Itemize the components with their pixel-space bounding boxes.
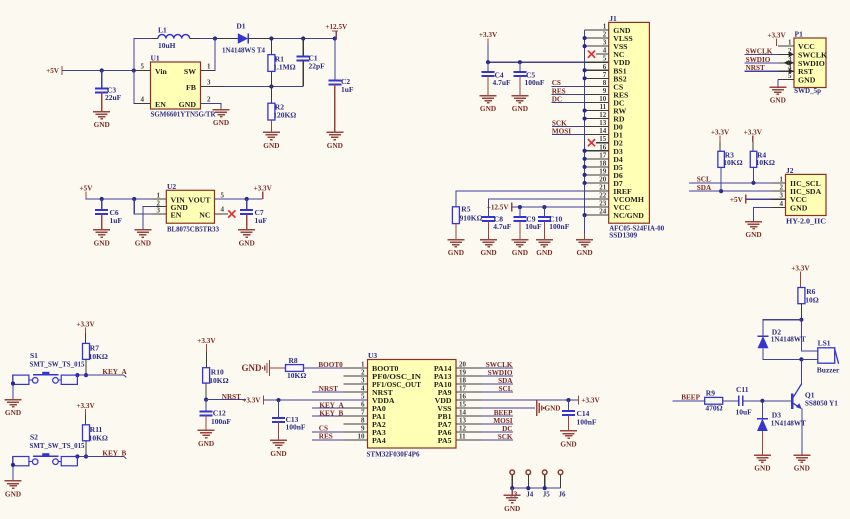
svg-text:+3.3V: +3.3V bbox=[791, 265, 810, 273]
svg-text:+3.3V: +3.3V bbox=[711, 129, 730, 137]
pin 14 J1 D1 bbox=[585, 134, 609, 136]
wire +5V to U1 Vin bbox=[62, 70, 134, 72]
svg-text:100nF: 100nF bbox=[286, 423, 306, 432]
svg-text:10uF: 10uF bbox=[736, 407, 753, 416]
connector J6 bbox=[558, 470, 563, 475]
svg-text:10Ω: 10Ω bbox=[805, 295, 819, 304]
svg-text:VOUT: VOUT bbox=[188, 195, 211, 204]
wire DC U3 bbox=[481, 431, 513, 433]
wire RES U3 bbox=[312, 439, 343, 441]
pin 16 U3 VDD bbox=[456, 399, 481, 401]
svg-text:+3.3V: +3.3V bbox=[197, 337, 216, 345]
svg-text:100nF: 100nF bbox=[211, 417, 231, 426]
ground GND S1 bbox=[5, 399, 22, 401]
pin 18 J1 D5 bbox=[585, 166, 609, 168]
svg-text:14: 14 bbox=[459, 409, 467, 417]
wire CS U3 bbox=[312, 431, 343, 433]
svg-text:14: 14 bbox=[599, 127, 607, 135]
node B collector bbox=[799, 357, 803, 361]
resistor R8 bbox=[286, 365, 304, 372]
pin stub U1 FB bbox=[201, 86, 225, 88]
svg-text:SWDIO: SWDIO bbox=[488, 369, 513, 377]
node C14 bbox=[566, 398, 570, 402]
pin 20 J1 D7 bbox=[585, 182, 609, 184]
capacitor C3 bbox=[101, 71, 103, 89]
wire MOSI U3 bbox=[481, 423, 513, 425]
svg-text:J5: J5 bbox=[543, 491, 551, 499]
svg-text:+3.3V: +3.3V bbox=[479, 31, 498, 39]
capacitor C12 bbox=[205, 400, 207, 412]
wire KEY net S1 bbox=[77, 374, 124, 376]
wire EN tie bbox=[134, 199, 166, 214]
wire node A to buzzer bbox=[801, 320, 817, 351]
svg-text:+12.5V: +12.5V bbox=[325, 23, 348, 31]
svg-text:GND: GND bbox=[5, 408, 21, 417]
svg-text:GND: GND bbox=[263, 141, 279, 150]
svg-text:FB: FB bbox=[186, 83, 196, 92]
svg-text:SCK: SCK bbox=[498, 433, 513, 441]
svg-text:2: 2 bbox=[361, 369, 365, 377]
connector J4 bbox=[526, 470, 531, 475]
svg-text:SW: SW bbox=[184, 67, 196, 76]
svg-text:SCL: SCL bbox=[499, 385, 513, 393]
svg-text:GND: GND bbox=[504, 504, 520, 513]
buzzer LS1 bbox=[818, 348, 835, 363]
svg-text:+3.3V: +3.3V bbox=[581, 397, 600, 405]
svg-text:12: 12 bbox=[599, 111, 607, 119]
svg-text:SMT_SW_TS_015: SMT_SW_TS_015 bbox=[30, 441, 85, 450]
svg-text:GND: GND bbox=[512, 248, 528, 257]
connector J3 bbox=[510, 470, 515, 475]
pin 11 U3 PA5 bbox=[456, 439, 481, 441]
wire VDD rail bbox=[488, 61, 585, 63]
wire VOUT to +3.3V bbox=[215, 198, 263, 200]
svg-text:GND: GND bbox=[448, 248, 464, 257]
pin 3 U3 PF1/OSC_OUT bbox=[343, 383, 367, 385]
no-connect X J1 pin15 bbox=[588, 139, 595, 146]
wire jumper bus bbox=[512, 487, 560, 489]
svg-text:J2: J2 bbox=[786, 166, 794, 175]
svg-text:GND: GND bbox=[94, 120, 110, 129]
pin 2 P1 SWCLK bbox=[778, 53, 794, 55]
svg-text:+3.3V: +3.3V bbox=[254, 184, 273, 192]
resistor R6 bbox=[798, 288, 805, 304]
pin stub U2 GND bbox=[156, 206, 166, 208]
pin 11 J1 RW bbox=[585, 110, 609, 112]
ground GND C14 bbox=[568, 415, 570, 431]
pin 14 U3 PB1 bbox=[456, 415, 481, 417]
capacitor C11 bbox=[738, 396, 740, 406]
svg-text:1: 1 bbox=[157, 192, 161, 200]
svg-text:4.7uF: 4.7uF bbox=[493, 78, 512, 87]
wire SCK bbox=[552, 126, 585, 128]
svg-text:GND: GND bbox=[327, 141, 343, 150]
wire MOSI bbox=[552, 134, 585, 136]
svg-text:C11: C11 bbox=[736, 385, 749, 394]
svg-text:10KΩ: 10KΩ bbox=[756, 158, 775, 167]
node J1 bus pin 24 bbox=[583, 213, 587, 217]
svg-text:100nF: 100nF bbox=[577, 418, 597, 427]
resistor R10 bbox=[203, 368, 210, 383]
node J1 bus pin 16 bbox=[583, 149, 587, 153]
svg-text:4: 4 bbox=[141, 95, 145, 103]
node J1 bus pin 19 bbox=[583, 173, 587, 177]
pin 16 J1 D3 bbox=[585, 150, 609, 152]
svg-text:3: 3 bbox=[361, 377, 365, 385]
pin 4 U3 NRST bbox=[343, 391, 367, 393]
node switch right S1 bbox=[75, 373, 79, 377]
svg-text:1: 1 bbox=[788, 39, 792, 47]
svg-text:5: 5 bbox=[221, 192, 225, 200]
svg-text:9: 9 bbox=[361, 425, 365, 433]
ground GND U1 bbox=[213, 109, 230, 111]
wire P1 GND bbox=[777, 80, 779, 87]
node J1 bus pin 17 bbox=[583, 157, 587, 161]
wire VCC rail bbox=[512, 206, 585, 208]
wire SDA U3 bbox=[481, 383, 513, 385]
ground GND C2 bbox=[334, 85, 336, 133]
diode D3 bbox=[761, 401, 763, 419]
node J1 bus pin 20 bbox=[583, 181, 587, 185]
node C10 bbox=[542, 205, 546, 209]
svg-text:+5V: +5V bbox=[46, 67, 60, 75]
svg-text:2: 2 bbox=[603, 31, 607, 39]
pin 12 U3 PA6 bbox=[456, 431, 481, 433]
pin 18 U3 PA10 bbox=[456, 383, 481, 385]
pin 4 J1 NC bbox=[596, 53, 609, 55]
svg-text:PA5: PA5 bbox=[438, 436, 452, 445]
svg-text:D1: D1 bbox=[236, 22, 245, 31]
ground GND C9 bbox=[519, 221, 521, 240]
pin NC stub U2 bbox=[215, 213, 229, 215]
resistor R4 bbox=[750, 151, 757, 167]
wire BEEP U3 bbox=[481, 415, 513, 417]
pin 5 P1 GND bbox=[778, 79, 794, 81]
pin stub U1 SW bbox=[201, 70, 216, 72]
power +12.5V J1 bbox=[511, 203, 513, 212]
svg-text:KEY_A: KEY_A bbox=[102, 368, 127, 376]
svg-text:21: 21 bbox=[599, 184, 607, 192]
pin 24 J1 NC/GND bbox=[585, 214, 609, 216]
svg-text:GND: GND bbox=[94, 239, 110, 248]
svg-text:+3.3V: +3.3V bbox=[744, 129, 763, 137]
ground GND jumpers bbox=[511, 488, 513, 495]
pin 22 J1 VCOMH bbox=[585, 198, 609, 200]
svg-text:13: 13 bbox=[599, 119, 607, 127]
svg-text:1.1MΩ: 1.1MΩ bbox=[273, 63, 295, 72]
svg-text:470Ω: 470Ω bbox=[705, 403, 722, 412]
svg-text:HY-2.0_IIC: HY-2.0_IIC bbox=[786, 217, 826, 226]
node SW junction bbox=[213, 36, 217, 40]
svg-text:SWCLK: SWCLK bbox=[486, 361, 513, 369]
wire SWDIO bbox=[745, 62, 778, 64]
node J1 bus pin 12 bbox=[583, 116, 587, 120]
capacitor C5 bbox=[519, 62, 521, 72]
resistor R11 bbox=[83, 425, 90, 441]
svg-text:10KΩ: 10KΩ bbox=[287, 371, 306, 380]
wire D2 to node B bbox=[763, 348, 801, 359]
svg-text:GND: GND bbox=[794, 464, 810, 473]
svg-text:23: 23 bbox=[599, 200, 607, 208]
capacitor C8 bbox=[482, 216, 495, 218]
svg-text:+3.3V: +3.3V bbox=[76, 402, 95, 410]
svg-text:U2: U2 bbox=[167, 182, 176, 191]
svg-text:L1: L1 bbox=[158, 25, 167, 34]
pin 10 J1 DC bbox=[585, 101, 609, 103]
wire SDA bbox=[689, 190, 772, 192]
svg-text:KEY_A: KEY_A bbox=[319, 401, 344, 409]
svg-text:GND: GND bbox=[545, 405, 561, 413]
wire R3 to SDA bbox=[720, 167, 722, 191]
svg-text:Buzzer: Buzzer bbox=[817, 366, 840, 375]
wire collector bbox=[800, 359, 802, 383]
pin stub U2 EN bbox=[152, 213, 166, 215]
svg-text:J6: J6 bbox=[559, 491, 567, 499]
wire FB net bbox=[201, 86, 304, 88]
pin 17 U3 PA9 bbox=[456, 391, 481, 393]
pin 7 U3 PA1 bbox=[343, 415, 367, 417]
svg-text:GND: GND bbox=[179, 100, 197, 109]
svg-text:GND: GND bbox=[798, 76, 816, 85]
svg-text:KEY_B: KEY_B bbox=[319, 410, 343, 418]
inductor L1 bbox=[158, 35, 190, 39]
wire SWCLK bbox=[745, 53, 778, 55]
node J1 bus pin 3 bbox=[583, 44, 587, 48]
pin 3 P1 SWDIO bbox=[778, 62, 794, 64]
node R4 bottom bbox=[751, 181, 755, 185]
regulator U1 bbox=[151, 62, 201, 109]
power +5V bbox=[61, 66, 63, 75]
svg-text:910KΩ: 910KΩ bbox=[460, 214, 483, 223]
node base junction bbox=[760, 399, 764, 403]
svg-text:4: 4 bbox=[603, 47, 607, 55]
svg-text:1N4148WT: 1N4148WT bbox=[771, 418, 806, 427]
ground GND VSS side bbox=[536, 400, 538, 416]
svg-text:GND: GND bbox=[242, 363, 263, 373]
svg-text:CS: CS bbox=[319, 424, 328, 432]
wire J1 ground bus bbox=[584, 30, 586, 215]
svg-text:+3.3V: +3.3V bbox=[242, 397, 261, 405]
wire CS bbox=[552, 85, 585, 87]
svg-text:GND: GND bbox=[790, 204, 808, 213]
svg-text:5: 5 bbox=[361, 393, 365, 401]
wire emitter to ground bbox=[801, 408, 803, 455]
pin 6 J1 BS1 bbox=[585, 69, 609, 71]
node C4 bbox=[486, 60, 490, 64]
diode D1 bbox=[238, 33, 248, 43]
pin arrow P1 pin2 bbox=[789, 52, 794, 57]
svg-text:SMT_SW_TS_015: SMT_SW_TS_015 bbox=[30, 360, 85, 369]
svg-text:MOSI: MOSI bbox=[493, 417, 512, 425]
svg-text:22uF: 22uF bbox=[105, 93, 122, 102]
svg-text:KEY_B: KEY_B bbox=[102, 450, 126, 458]
pin 20 U3 PA14 bbox=[456, 367, 481, 369]
connector J5 bbox=[542, 470, 547, 475]
ground GND C10 bbox=[543, 221, 545, 240]
wire D1 to +12.5V node bbox=[248, 38, 271, 40]
node J1 bus pin 11 bbox=[583, 108, 587, 112]
no-connect X J1 pin4 bbox=[588, 51, 595, 58]
ground GND C8 bbox=[488, 221, 490, 240]
connector P1 bbox=[794, 38, 826, 88]
svg-text:GND: GND bbox=[770, 96, 786, 105]
svg-text:GND: GND bbox=[213, 118, 229, 127]
svg-text:100nF: 100nF bbox=[525, 78, 545, 87]
pin 8 U3 PA2 bbox=[343, 423, 367, 425]
pin 3 J1 VSS bbox=[585, 45, 609, 47]
wire +5V to VCC bbox=[746, 198, 772, 200]
wire D3 to ground bbox=[761, 431, 763, 455]
resistor R1 bbox=[270, 39, 272, 55]
svg-text:10KΩ: 10KΩ bbox=[723, 158, 742, 167]
node R3 bottom bbox=[719, 189, 723, 193]
pin stub U1 EN bbox=[134, 102, 151, 104]
wire SCK U3 bbox=[481, 439, 513, 441]
svg-text:2: 2 bbox=[780, 184, 784, 192]
capacitor C9 bbox=[519, 207, 521, 217]
svg-text:U1: U1 bbox=[151, 54, 160, 63]
node C2 top bbox=[333, 36, 337, 40]
svg-text:+3.3V: +3.3V bbox=[767, 31, 786, 39]
svg-text:4: 4 bbox=[780, 200, 784, 208]
pin 5 U3 VDDA bbox=[343, 399, 367, 401]
pin 3 J2 VCC bbox=[772, 198, 786, 200]
wire node A to D2 bbox=[763, 320, 801, 336]
svg-text:GND: GND bbox=[754, 464, 770, 473]
pin 19 U3 PA13 bbox=[456, 375, 481, 377]
svg-text:SSD1309: SSD1309 bbox=[609, 230, 637, 239]
wire +5V to VIN bbox=[85, 198, 166, 200]
svg-text:24: 24 bbox=[599, 208, 607, 216]
svg-text:8: 8 bbox=[361, 417, 365, 425]
pin 8 J1 CS bbox=[585, 85, 609, 87]
diode D2 bbox=[758, 335, 769, 337]
svg-text:1: 1 bbox=[207, 63, 211, 71]
capacitor C13 bbox=[278, 400, 280, 418]
wire EN branch bbox=[134, 71, 151, 104]
MCU U3 STM32F030F4P6 bbox=[368, 360, 457, 449]
transistor Q1 SS8050 bbox=[791, 393, 793, 409]
node J1 bus pin 18 bbox=[583, 165, 587, 169]
pin 2 J2 IIC_SDA bbox=[772, 190, 786, 192]
pin 13 U3 PA7 bbox=[456, 423, 481, 425]
svg-text:SWD_5p: SWD_5p bbox=[794, 86, 821, 95]
svg-text:10KΩ: 10KΩ bbox=[89, 433, 108, 442]
svg-text:BOOT0: BOOT0 bbox=[318, 361, 343, 369]
node C7 bbox=[245, 197, 249, 201]
wire C11 to base bbox=[743, 400, 792, 402]
node C13 bbox=[276, 398, 280, 402]
svg-text:R5: R5 bbox=[461, 205, 470, 214]
svg-text:15: 15 bbox=[459, 401, 467, 409]
wire VDDA rail bbox=[264, 399, 368, 401]
wire J2 GND bbox=[754, 208, 772, 222]
resistor R3 bbox=[718, 151, 725, 167]
regulator U2 bbox=[166, 190, 214, 223]
wire node B to buzzer bbox=[801, 358, 817, 360]
wire switch to ground S2 bbox=[12, 457, 14, 481]
svg-text:+3.3V: +3.3V bbox=[76, 321, 95, 329]
svg-text:R9: R9 bbox=[706, 389, 715, 398]
svg-text:4.7uF: 4.7uF bbox=[493, 222, 512, 231]
svg-text:GND: GND bbox=[480, 104, 496, 113]
wire VDD to +3.3V bbox=[481, 399, 578, 401]
node J3 bus bbox=[510, 486, 514, 490]
node NRST junction bbox=[204, 398, 208, 402]
node J1 bus pin 2 bbox=[583, 36, 587, 40]
svg-text:DC: DC bbox=[502, 425, 512, 433]
svg-text:EN: EN bbox=[171, 210, 182, 219]
ground GND C13 bbox=[278, 422, 280, 440]
wire SCL U3 bbox=[481, 391, 513, 393]
node J5 bus bbox=[543, 486, 547, 490]
pin arrow P1 pin4 bbox=[789, 69, 794, 74]
svg-text:2: 2 bbox=[207, 95, 211, 103]
ground GND R2 bbox=[270, 120, 272, 132]
capacitor C7 bbox=[246, 199, 248, 210]
capacitor C14 bbox=[568, 400, 570, 411]
pin 1 J1 GND bbox=[585, 29, 609, 31]
ground GND J2 bbox=[745, 221, 762, 223]
wire GND to R8 bbox=[270, 367, 286, 369]
svg-text:+5V: +5V bbox=[730, 196, 744, 204]
resistor R9 bbox=[705, 397, 723, 404]
svg-text:15: 15 bbox=[599, 135, 607, 143]
svg-text:22: 22 bbox=[599, 192, 607, 200]
wire NRST R10 bbox=[206, 399, 246, 401]
node C3 junction bbox=[100, 68, 104, 72]
wire SWCLK U3 bbox=[481, 367, 513, 369]
svg-text:5: 5 bbox=[603, 55, 607, 63]
ground GND C3 bbox=[101, 93, 103, 112]
svg-text:18: 18 bbox=[459, 377, 467, 385]
pin 9 U3 PA3 bbox=[343, 431, 367, 433]
node C5 bbox=[518, 60, 522, 64]
svg-text:RES: RES bbox=[319, 432, 333, 440]
wire VSS to GND bbox=[481, 407, 535, 409]
ground GND D3 bbox=[754, 454, 771, 456]
capacitor C10 bbox=[543, 207, 545, 217]
wire IREF to R5 bbox=[456, 191, 585, 207]
svg-text:10uH: 10uH bbox=[158, 41, 176, 50]
pin 1 P1 VCC bbox=[778, 45, 794, 47]
wire NRST U3 bbox=[312, 391, 343, 393]
wire R4 to SCL bbox=[753, 167, 755, 182]
node switch right S2 bbox=[75, 454, 79, 458]
wire KEY_A U3 bbox=[312, 407, 343, 409]
pin stub U1 Vin bbox=[134, 70, 151, 72]
node Vin junction bbox=[132, 68, 136, 72]
wire NRST bbox=[745, 70, 778, 72]
power +3.3V U3 VDD bbox=[577, 396, 579, 405]
svg-text:20: 20 bbox=[459, 361, 467, 369]
svg-text:20: 20 bbox=[599, 175, 607, 183]
pin 2 J1 VLSS bbox=[585, 37, 609, 39]
wire BOOT0 bbox=[304, 367, 344, 369]
node C1 top bbox=[301, 36, 305, 40]
svg-text:+5V: +5V bbox=[80, 184, 94, 192]
svg-text:GND: GND bbox=[512, 104, 528, 113]
pin 13 J1 D0 bbox=[585, 126, 609, 128]
svg-text:16: 16 bbox=[599, 143, 607, 151]
svg-text:NC: NC bbox=[199, 210, 211, 219]
svg-text:J1: J1 bbox=[609, 14, 617, 23]
svg-text:17: 17 bbox=[599, 151, 607, 159]
svg-text:11: 11 bbox=[459, 433, 466, 441]
pin 21 J1 IREF bbox=[585, 190, 609, 192]
svg-text:19: 19 bbox=[599, 167, 607, 175]
svg-text:GND: GND bbox=[480, 248, 496, 257]
